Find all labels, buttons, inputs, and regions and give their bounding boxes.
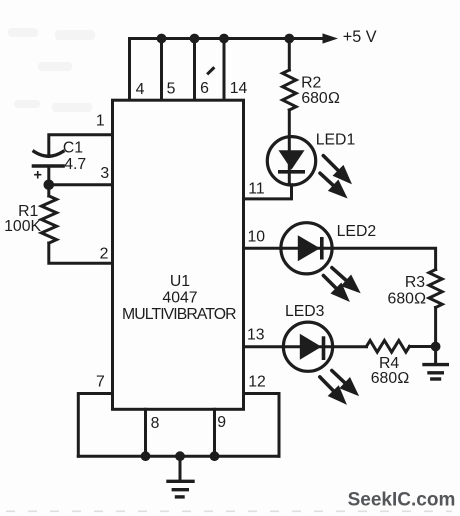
wire R2 to LED1 (288, 110, 291, 185)
wire pin 7 (78, 394, 112, 457)
junction bus pin6 (190, 34, 200, 44)
IC U1 box (113, 100, 244, 409)
resistor R2 (283, 70, 297, 110)
svg-text:12: 12 (248, 373, 266, 390)
LED1 triangle (279, 150, 305, 169)
junction R3 R4 ground (431, 342, 441, 352)
wire node to R1 (47, 185, 50, 196)
svg-text:LED3: LED3 (285, 303, 325, 320)
svg-text:R3: R3 (405, 274, 425, 291)
svg-text:6: 6 (200, 80, 209, 97)
wire +5V top bus (130, 37, 325, 40)
svg-text:7: 7 (96, 373, 105, 390)
junction C1 R1 pin3 (44, 180, 55, 191)
wire R1 to pin 2 (49, 243, 113, 263)
svg-text:SeekIC.com: SeekIC.com (348, 489, 456, 510)
ground R3R4 bars (424, 365, 447, 379)
scan ghosting top left (8, 28, 95, 112)
svg-text:9: 9 (217, 414, 226, 431)
LED1 light arrow 2 (320, 173, 344, 195)
wire pin 4 to bus (128, 39, 131, 101)
+5V arrowhead (323, 33, 339, 43)
capacitor C1 top plate (34, 152, 63, 157)
svg-text:1: 1 (96, 112, 105, 129)
LED3 light arrow 2 (320, 377, 344, 401)
LED LED2 (281, 223, 332, 274)
ground main bars (168, 481, 193, 497)
scan streak bottom (6, 510, 452, 512)
junction bus pin5 (157, 34, 167, 44)
wire pin 3 (49, 183, 113, 186)
svg-text:100K: 100K (4, 218, 41, 235)
svg-text:8: 8 (151, 415, 160, 432)
wire pin 1 (49, 135, 113, 157)
ground main stem (179, 456, 182, 480)
svg-text:MULTIVIBRATOR: MULTIVIBRATOR (122, 306, 236, 323)
junction bus pin8 (141, 451, 151, 461)
resistor R3 (429, 270, 442, 308)
svg-text:10: 10 (248, 229, 266, 246)
wire pin 8 (144, 409, 147, 456)
LED2 cathode bar (320, 237, 324, 260)
svg-text:2: 2 (100, 246, 109, 263)
svg-text:680Ω: 680Ω (371, 370, 410, 387)
svg-text:4: 4 (136, 81, 145, 98)
LED3 cathode bar (322, 336, 326, 360)
svg-text:680Ω: 680Ω (301, 90, 340, 107)
resistor R1 (41, 196, 56, 243)
stray mark near pin 6 (208, 68, 213, 73)
svg-text:13: 13 (247, 327, 265, 344)
svg-text:LED1: LED1 (316, 132, 356, 149)
LED2 light arrow 2 (323, 276, 346, 299)
wire pin 9 (213, 409, 216, 456)
wire R4 to node (410, 345, 436, 348)
LED3 triangle (300, 334, 322, 360)
wire pin 6 to bus (193, 39, 196, 101)
LED LED1 (267, 137, 315, 185)
wire pin 12 (244, 394, 280, 457)
junction bus pin9 (210, 451, 220, 461)
capacitor C1 bottom plate (34, 164, 64, 168)
wire R3 to node (434, 308, 437, 347)
svg-text:3: 3 (100, 165, 109, 182)
junction bus R2 (284, 34, 294, 44)
svg-text:11: 11 (248, 181, 265, 198)
wire pin 10 to LED2 to R3 corner (244, 248, 436, 269)
resistor R4 (367, 341, 410, 353)
svg-text:R2: R2 (301, 74, 321, 91)
svg-text:C1: C1 (63, 139, 83, 156)
wire pin 13 to LED3 to R4 (244, 345, 367, 348)
LED1 light arrow 1 (323, 156, 348, 181)
svg-text:4.7: 4.7 (64, 156, 86, 173)
LED2 light arrow 1 (332, 268, 357, 290)
svg-text:U1: U1 (170, 273, 190, 290)
wire ground bus (78, 455, 279, 458)
LED2 triangle (298, 235, 320, 261)
svg-text:+: + (33, 168, 41, 184)
junction bus pin14 (219, 34, 229, 44)
wire C1 to node (47, 166, 50, 185)
wire pin 5 to bus (160, 39, 163, 101)
wire pin 14 to bus (223, 39, 226, 101)
junction bus ground (175, 451, 185, 461)
wire bus to R2 (288, 39, 291, 71)
svg-text:14: 14 (230, 80, 248, 97)
svg-text:+5 V: +5 V (343, 28, 377, 46)
LED3 light arrow 1 (332, 371, 356, 393)
svg-text:5: 5 (167, 81, 176, 98)
svg-text:LED2: LED2 (337, 223, 377, 240)
svg-text:680Ω: 680Ω (388, 291, 427, 308)
LED LED3 (283, 322, 332, 371)
LED1 cathode bar (278, 170, 305, 174)
wire LED1 to pin 11 (244, 185, 292, 199)
ground R3R4 stem (434, 347, 437, 363)
svg-text:4047: 4047 (162, 290, 197, 307)
